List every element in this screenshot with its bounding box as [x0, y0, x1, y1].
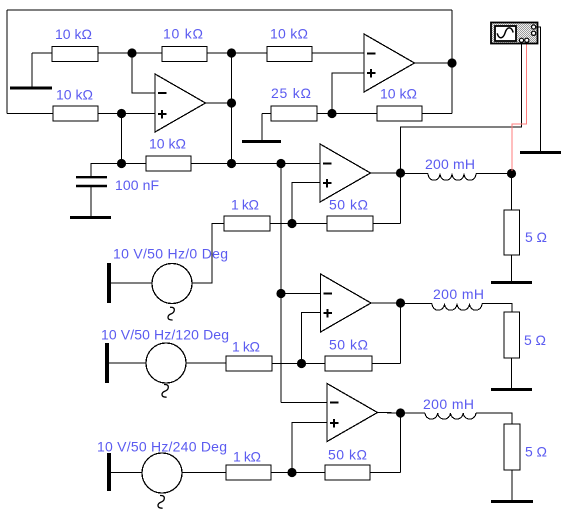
inductor L1 200mH — [401, 156, 512, 180]
svg-text:10 V/50 Hz/240 Deg: 10 V/50 Hz/240 Deg — [97, 439, 227, 455]
resistor R13 50k (U4 feedback) — [302, 337, 401, 372]
wire U5 output down to feedback — [400, 413, 402, 473]
svg-text:10 kΩ: 10 kΩ — [163, 26, 203, 42]
wire U3 plus input — [292, 183, 320, 224]
node P junction (400.5,413) — [396, 408, 405, 417]
wire U2 plus input — [332, 73, 364, 114]
wire scope channel A link — [401, 44, 522, 173]
resistor R8 5ohm (row1 load) — [504, 174, 547, 282]
source V2 ground bar — [105, 343, 109, 383]
capacitor C1 100nF — [76, 177, 159, 216]
wire U4 plus input — [302, 313, 321, 364]
wire U1 output — [206, 102, 232, 104]
svg-text:25 kΩ: 25 kΩ — [271, 85, 311, 101]
node N junction (400.5,303) — [396, 298, 405, 307]
svg-text:200 mH: 200 mH — [433, 286, 484, 302]
ground G7 — [491, 500, 533, 503]
node F junction (231.5,163.5) — [227, 159, 236, 168]
ground G3 — [242, 140, 281, 143]
wire node G to U3 minus — [281, 163, 320, 165]
ground G4 (scope) — [520, 151, 561, 154]
wire bus to U5 minus — [281, 402, 327, 404]
node M junction (281,293.5) — [276, 289, 285, 298]
node Q junction (292,472.5) — [287, 468, 296, 477]
wire U4 output — [371, 302, 401, 304]
node G junction (281,163.5) — [276, 159, 285, 168]
source V1 10V/50Hz/0deg — [111, 224, 228, 321]
ground G6 — [491, 388, 532, 391]
svg-text:100 nF: 100 nF — [115, 177, 159, 193]
node O junction (301.5,363.5) — [297, 359, 306, 368]
node K junction (511.5,173.5) — [507, 169, 516, 178]
wire feedback to U1 minus — [132, 53, 155, 93]
resistor R6 25k — [262, 85, 332, 121]
wire left frame vertical — [6, 10, 8, 114]
wire node B down bus — [231, 53, 233, 164]
node E junction (121.5,163.5) — [117, 159, 126, 168]
svg-text:50 kΩ: 50 kΩ — [328, 447, 367, 463]
op-amp U3 — [320, 144, 371, 202]
node H junction (332,113.5) — [327, 109, 336, 118]
resistor R9 1k (row1) — [224, 197, 292, 232]
resistor R15 1k (row3) — [226, 449, 292, 481]
svg-text:10 kΩ: 10 kΩ — [56, 87, 93, 103]
op-amp U1 — [155, 74, 206, 132]
wire left frame to R2 — [7, 113, 53, 115]
inductor L3 200mH — [401, 396, 513, 424]
svg-text:10 V/50 Hz/0 Deg: 10 V/50 Hz/0 Deg — [113, 246, 228, 262]
source V3 ground bar — [107, 453, 111, 491]
wire 25k to ground — [261, 114, 263, 141]
resistor R3 10k (top middle) — [132, 26, 232, 62]
source V1 ground bar — [107, 263, 111, 303]
svg-text:10 kΩ: 10 kΩ — [149, 136, 186, 152]
svg-text:50 kΩ: 50 kΩ — [329, 197, 368, 213]
wire U5 plus input — [292, 423, 327, 473]
op-amp U2 — [364, 34, 415, 92]
node J junction (400.5,173) — [396, 168, 405, 177]
svg-text:10 V/50 Hz/120 Deg: 10 V/50 Hz/120 Deg — [101, 327, 229, 343]
node B junction (231.5,53) — [227, 48, 236, 57]
wire U5 output — [378, 412, 401, 415]
svg-text:1 kΩ: 1 kΩ — [233, 449, 261, 465]
svg-text:5 Ω: 5 Ω — [524, 332, 546, 348]
resistor R16 50k (U5 feedback) — [292, 447, 401, 481]
resistor R12 1k (row2) — [226, 339, 302, 372]
resistor R11 5ohm (row2 load) — [504, 312, 546, 388]
svg-text:1 kΩ: 1 kΩ — [232, 339, 260, 355]
wire top frame horizontal — [7, 9, 452, 11]
resistor R14 5ohm (row3 load) — [504, 424, 547, 500]
op-amp U5 — [327, 384, 378, 442]
resistor R7 10k (U2 feedback) — [332, 86, 452, 122]
node D junction (231.5,103) — [227, 98, 236, 107]
svg-text:1 kΩ: 1 kΩ — [231, 197, 259, 213]
wire scope ground — [536, 27, 541, 151]
ground G1 — [10, 87, 52, 90]
wire node C down — [121, 114, 123, 164]
oscilloscope XSC1 — [491, 23, 538, 44]
wire node F to node G — [232, 163, 282, 165]
svg-text:50 kΩ: 50 kΩ — [329, 337, 368, 353]
inductor L2 200mH — [401, 286, 513, 312]
resistor R1 10k (top-left) — [32, 26, 132, 62]
svg-text:200 mH: 200 mH — [423, 396, 474, 412]
svg-text:5 Ω: 5 Ω — [525, 444, 547, 460]
wire U3 output — [371, 172, 401, 174]
source V3 10V/50Hz/240deg — [97, 439, 227, 509]
wire U2 output vertical — [451, 10, 453, 114]
source V2 10V/50Hz/120deg — [101, 327, 229, 398]
node C junction (121.5,113.5) — [117, 109, 126, 118]
wire bus x=281 down — [280, 164, 282, 403]
wire scope probe B (red) — [512, 44, 527, 171]
ground G2 (capacitor) — [70, 216, 111, 219]
ground G5 — [491, 281, 532, 284]
svg-text:10 kΩ: 10 kΩ — [55, 26, 92, 42]
op-amp U4 — [321, 274, 372, 332]
resistor R2 10k (row2 left) — [53, 87, 122, 122]
svg-text:5 Ω: 5 Ω — [525, 229, 547, 245]
wire node E to capacitor — [91, 164, 122, 177]
node I junction (452,63) — [447, 58, 456, 67]
resistor R4 10k (top right) — [232, 26, 365, 62]
node A junction (132,53) — [127, 48, 136, 57]
node L junction (292,223.5) — [287, 219, 296, 228]
wire U2 output — [415, 62, 453, 64]
wire node C to U1 plus — [122, 113, 156, 115]
wire node M to U4 minus — [281, 293, 321, 295]
svg-text:200 mH: 200 mH — [425, 156, 475, 172]
wire U3 output down to feedback — [400, 173, 402, 224]
wire R1 to ground — [31, 53, 33, 87]
resistor R10 50k (U3 feedback) — [292, 197, 401, 232]
resistor R5 10k (row3) — [122, 136, 232, 172]
svg-text:10 kΩ: 10 kΩ — [380, 86, 417, 102]
svg-text:10 kΩ: 10 kΩ — [270, 26, 308, 42]
wire U4 output down to feedback — [400, 303, 402, 364]
